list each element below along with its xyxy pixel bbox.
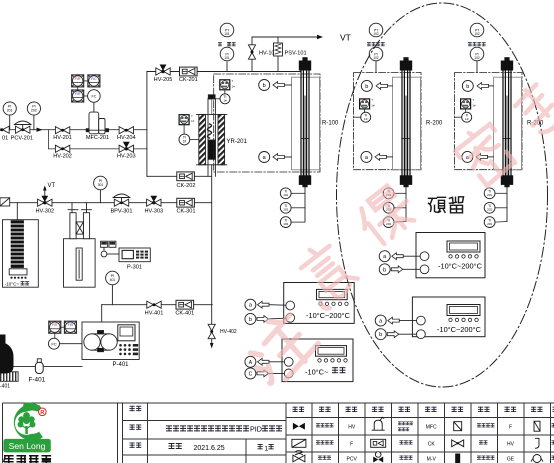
svg-text:b: b bbox=[249, 317, 252, 323]
svg-text:Sen Long: Sen Long bbox=[9, 441, 46, 451]
svg-text:PCV: PCV bbox=[347, 457, 358, 463]
svg-text:MFC: MFC bbox=[426, 424, 437, 430]
svg-text:HV-203: HV-203 bbox=[117, 154, 136, 160]
svg-text:203: 203 bbox=[386, 222, 391, 226]
svg-text:HV: HV bbox=[507, 442, 515, 448]
svg-text:CK-301: CK-301 bbox=[177, 209, 196, 215]
svg-text:HV-202: HV-202 bbox=[53, 154, 72, 160]
svg-text:HV-303: HV-303 bbox=[144, 209, 163, 215]
svg-text:b: b bbox=[383, 267, 386, 273]
svg-text:T: T bbox=[191, 114, 193, 118]
svg-text:102: 102 bbox=[373, 56, 379, 60]
svg-text:M-V: M-V bbox=[427, 457, 437, 463]
svg-text:103: 103 bbox=[283, 222, 288, 226]
svg-text:1#: 1# bbox=[371, 104, 375, 108]
svg-text:1#: 1# bbox=[183, 139, 187, 143]
svg-text:401: 401 bbox=[110, 278, 116, 282]
svg-text:HV-402: HV-402 bbox=[220, 329, 237, 335]
svg-text:T: T bbox=[232, 79, 234, 83]
svg-text:FIR: FIR bbox=[75, 92, 81, 96]
svg-text:FIR: FIR bbox=[75, 77, 81, 81]
svg-text:F: F bbox=[509, 424, 512, 430]
svg-text:BPV-301: BPV-301 bbox=[110, 209, 132, 215]
svg-text:1#: 1# bbox=[364, 117, 368, 121]
svg-text:HV-204: HV-204 bbox=[117, 135, 136, 141]
svg-text:FC: FC bbox=[92, 94, 97, 98]
svg-text:1#: 1# bbox=[232, 85, 236, 89]
svg-text:YR-201: YR-201 bbox=[227, 139, 248, 145]
svg-text:-10°C~200°C: -10°C~200°C bbox=[437, 325, 482, 334]
svg-text:b: b bbox=[263, 83, 266, 89]
svg-text:101: 101 bbox=[224, 32, 230, 36]
svg-text:1#: 1# bbox=[223, 99, 227, 103]
svg-text:FIR: FIR bbox=[68, 323, 74, 327]
svg-text:-10°C~: -10°C~ bbox=[305, 367, 328, 376]
svg-text:1#: 1# bbox=[191, 119, 195, 123]
svg-text:MFC-201: MFC-201 bbox=[86, 135, 109, 141]
svg-text:-10°C~200°C: -10°C~200°C bbox=[306, 311, 351, 320]
svg-text:102: 102 bbox=[373, 32, 379, 36]
svg-text:R-100: R-100 bbox=[322, 120, 339, 126]
svg-text:202: 202 bbox=[31, 109, 37, 113]
svg-text:101: 101 bbox=[283, 193, 288, 197]
svg-text:CK-202: CK-202 bbox=[177, 183, 196, 189]
svg-text:FIR: FIR bbox=[52, 323, 58, 327]
svg-text:b: b bbox=[365, 84, 368, 90]
svg-text:GE: GE bbox=[507, 457, 515, 463]
svg-text:C: C bbox=[249, 371, 253, 377]
svg-text:R-200: R-200 bbox=[426, 120, 443, 126]
svg-text:CK-401: CK-401 bbox=[175, 311, 194, 317]
svg-text:HV: HV bbox=[348, 424, 356, 430]
svg-text:R: R bbox=[40, 410, 44, 416]
svg-text:1: 1 bbox=[265, 445, 269, 452]
svg-text:HV-302: HV-302 bbox=[35, 209, 54, 215]
svg-text:F: F bbox=[350, 442, 353, 448]
svg-text:b: b bbox=[379, 332, 382, 338]
svg-text:FC: FC bbox=[51, 341, 56, 346]
svg-text:VT: VT bbox=[340, 33, 351, 43]
svg-text:VT: VT bbox=[48, 183, 56, 189]
svg-text:201: 201 bbox=[7, 109, 13, 113]
svg-text:102: 102 bbox=[283, 208, 288, 212]
svg-text:P-301: P-301 bbox=[127, 264, 142, 270]
svg-text:301: 301 bbox=[98, 183, 104, 187]
svg-text:-10°C~200°C: -10°C~200°C bbox=[438, 261, 483, 270]
svg-text:01: 01 bbox=[2, 136, 8, 142]
svg-text:-10°C~: -10°C~ bbox=[5, 282, 20, 287]
svg-text:PSV-101: PSV-101 bbox=[285, 51, 307, 57]
svg-text:-401: -401 bbox=[0, 384, 10, 390]
svg-text:CK-201: CK-201 bbox=[179, 77, 198, 83]
svg-text:CK: CK bbox=[428, 442, 436, 448]
svg-text:101: 101 bbox=[224, 56, 230, 60]
svg-text:HV-401: HV-401 bbox=[145, 311, 164, 317]
svg-text:FIC: FIC bbox=[91, 77, 97, 81]
svg-text:HV-205: HV-205 bbox=[154, 77, 173, 83]
svg-text:F-401: F-401 bbox=[29, 376, 46, 383]
svg-text:HV-201: HV-201 bbox=[53, 135, 72, 141]
svg-text:2021.6.25: 2021.6.25 bbox=[194, 445, 225, 452]
svg-text:PID: PID bbox=[250, 425, 262, 434]
svg-text:P-401: P-401 bbox=[112, 362, 129, 368]
svg-text:PCV-201: PCV-201 bbox=[11, 136, 33, 142]
svg-text:T: T bbox=[371, 98, 373, 102]
